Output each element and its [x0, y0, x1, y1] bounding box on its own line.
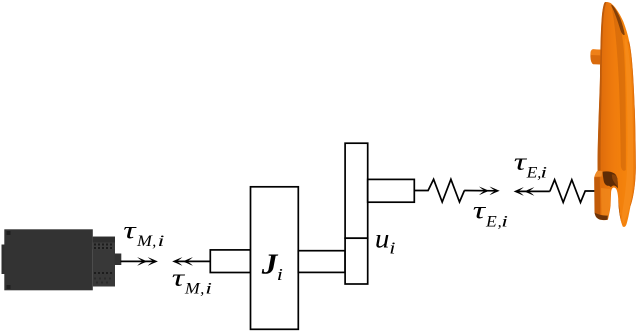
flange top highlight	[594, 171, 602, 177]
motor shaft nub	[115, 254, 122, 266]
gear upper block	[345, 143, 368, 238]
gear lower block	[345, 238, 368, 284]
inertia block J_i	[251, 187, 299, 329]
arrow tauM right (from motor)	[121, 257, 158, 266]
svg-text:τ: τ	[123, 216, 137, 244]
svg-text:i: i	[501, 213, 508, 230]
svg-text:M: M	[184, 279, 201, 297]
svg-text:i: i	[205, 280, 212, 297]
fork shadow bottom	[594, 213, 607, 221]
label tau_E,i (lower)	[473, 196, 508, 230]
shaft box mid (J to gear)	[298, 251, 345, 273]
svg-text:M: M	[136, 232, 153, 250]
label tau_E,i (upper)	[514, 147, 548, 181]
arrow tauE right	[464, 187, 500, 196]
shaft box left (motor shaft)	[210, 250, 250, 273]
label J_i	[261, 250, 283, 284]
svg-text:i: i	[540, 164, 547, 181]
robot link (orange)	[590, 0, 636, 227]
svg-text:i: i	[277, 265, 283, 284]
svg-text:,: ,	[152, 233, 156, 250]
svg-text:τ: τ	[514, 147, 528, 175]
left edge dark band	[593, 0, 606, 174]
label u_i	[375, 224, 395, 257]
svg-text:i: i	[158, 233, 165, 250]
label tau_M,i (upper)	[123, 216, 164, 250]
shaft box top (gear output)	[368, 179, 415, 202]
spring 2	[550, 180, 599, 203]
label tau_M,i (lower)	[172, 264, 213, 298]
svg-text:,: ,	[200, 280, 204, 297]
svg-text:E: E	[526, 163, 538, 181]
fork shadow band	[603, 171, 618, 188]
svg-text:E: E	[485, 212, 497, 230]
svg-text:i: i	[389, 239, 395, 258]
svg-text:τ: τ	[473, 196, 487, 224]
svg-text:u: u	[375, 224, 390, 254]
link tab	[590, 49, 604, 64]
link body	[594, 2, 636, 227]
mid dark channel	[612, 5, 626, 171]
right rim shade	[629, 42, 636, 207]
right bright band	[622, 38, 633, 223]
motor M (dark body)	[2, 229, 122, 290]
dark apex streak	[611, 5, 625, 35]
arrow tauM left (reaction)	[172, 257, 209, 266]
prong inner shadow	[618, 200, 622, 227]
svg-text:τ: τ	[172, 264, 186, 292]
left prong light	[601, 188, 610, 219]
spring 1	[415, 179, 465, 202]
flange face	[594, 177, 600, 217]
arrow tauE left	[514, 187, 550, 196]
